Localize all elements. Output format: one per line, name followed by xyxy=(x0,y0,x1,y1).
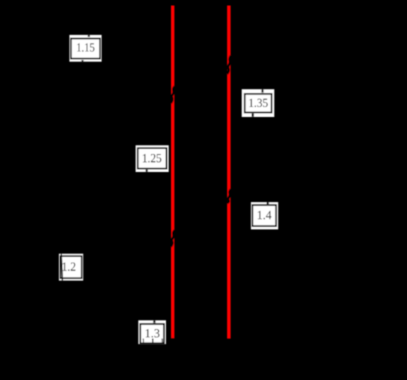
contour line fragments over bottom of label 1.3 xyxy=(142,339,144,345)
contour crossing D on line 2 xyxy=(227,189,231,203)
contour label 1.3 xyxy=(138,320,166,344)
contour label 1.4 xyxy=(251,202,278,229)
contour crossing C on line 2 xyxy=(227,56,231,74)
red vertical line 2 (right) xyxy=(227,6,231,339)
red vertical line 1 (left) xyxy=(171,6,174,339)
contour label 1.25 xyxy=(136,145,169,172)
contour crossing A on line 1 xyxy=(171,87,175,103)
contour line passing over label 1.2 xyxy=(61,254,62,281)
contour crossing B on line 1 xyxy=(171,230,175,246)
contour label 1.2 xyxy=(59,254,83,281)
contour label 1.15 xyxy=(69,35,101,62)
contour label 1.35 xyxy=(242,89,275,117)
